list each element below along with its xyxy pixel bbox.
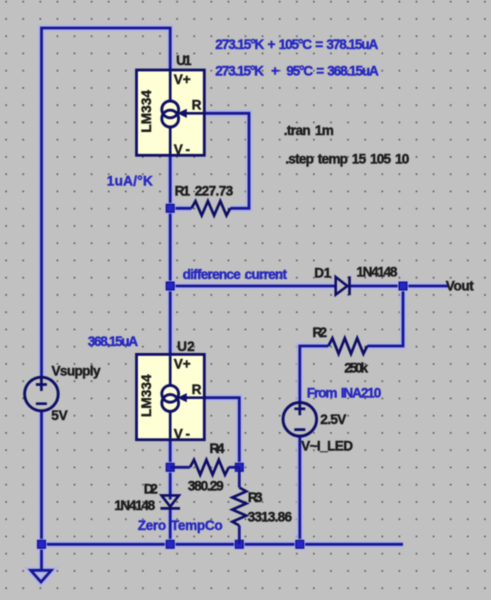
wire R4 left lead: [170, 466, 190, 469]
svg-text:V+: V+: [174, 356, 191, 371]
svg-text:273.15°K + 95°C = 368.15uA: 273.15°K + 95°C = 368.15uA: [215, 64, 379, 79]
svg-text:U2: U2: [177, 339, 195, 354]
svg-text:5V: 5V: [51, 408, 67, 423]
svg-text:R1: R1: [175, 184, 191, 199]
op-amp U1 LM334 body: [137, 70, 205, 155]
svg-text:V+: V+: [174, 72, 191, 87]
wire ground rail: [42, 541, 404, 548]
svg-text:D1: D1: [314, 266, 331, 281]
svg-text:Vout: Vout: [446, 279, 474, 294]
svg-text:V-: V-: [174, 427, 190, 442]
wire difference current (node to D1 anode): [170, 283, 336, 290]
svg-text:3313.86: 3313.86: [248, 510, 293, 525]
node junction R3 ground: [234, 539, 245, 550]
wire U1 V- to U2 V+: [167, 155, 174, 354]
wire D1 cathode to Vout: [350, 283, 449, 290]
svg-text:From INA210: From INA210: [307, 385, 382, 400]
svg-text:R: R: [192, 97, 202, 112]
wire U2 V- to D2 anode: [167, 440, 174, 500]
svg-text:1uA/°K: 1uA/°K: [107, 174, 153, 189]
svg-text:227.73: 227.73: [195, 184, 234, 199]
diode D2: [160, 495, 180, 508]
wire V+ rail: top and left from U1 V+ to ground corner: [42, 28, 171, 544]
wire R2 to V2 to ground rail: [300, 346, 329, 544]
svg-text:Vsupply: Vsupply: [52, 363, 101, 378]
op-amp U2 LM334 body: [137, 354, 205, 439]
svg-text:380.29: 380.29: [188, 479, 224, 494]
node junction V2 ground: [294, 539, 305, 550]
node junction R1 left: [165, 203, 176, 214]
svg-text:250k: 250k: [344, 361, 368, 376]
wire Vout node to R2: [367, 286, 403, 346]
node junction R4 left / D2: [165, 462, 176, 473]
node junction difference current tap: [165, 281, 176, 292]
wire R1 left lead to node: [170, 205, 191, 212]
svg-text:1N4148: 1N4148: [114, 498, 155, 513]
wire U2 R pin to R4 right node: [204, 398, 239, 468]
svg-text:273.15°K + 105°C = 378.15uA: 273.15°K + 105°C = 378.15uA: [215, 37, 378, 52]
wire R4 right lead: [229, 466, 240, 469]
node junction R4 right / R3: [234, 462, 245, 473]
resistor R3: [232, 467, 246, 544]
svg-text:368.15uA: 368.15uA: [88, 334, 138, 349]
svg-text:R3: R3: [248, 490, 263, 505]
voltage source Vsupply: [25, 377, 59, 411]
svg-text:.step temp 15 105 10: .step temp 15 105 10: [285, 152, 409, 167]
ground: [31, 544, 52, 582]
node junction D2 ground: [165, 539, 176, 550]
svg-text:2.5V: 2.5V: [320, 412, 346, 427]
wire D2 cathode to ground rail: [167, 508, 174, 544]
svg-text:D2: D2: [144, 482, 158, 497]
resistor R1: [192, 201, 231, 215]
svg-text:1N4148: 1N4148: [356, 265, 397, 280]
svg-text:.tran 1m: .tran 1m: [284, 123, 334, 138]
svg-text:V-: V-: [174, 142, 190, 157]
svg-text:R: R: [192, 382, 202, 397]
diode D1: [336, 276, 350, 295]
resistor R4: [190, 460, 229, 475]
svg-text:U1: U1: [176, 53, 192, 68]
voltage source V2 From INA210: [283, 403, 317, 437]
resistor R2: [328, 338, 367, 354]
node junction ground corner: [36, 539, 47, 550]
svg-text:Zero TempCo: Zero TempCo: [138, 518, 223, 533]
wire U1 R pin to R1: [204, 113, 249, 208]
svg-text:LM334: LM334: [139, 374, 154, 417]
svg-text:R2: R2: [313, 325, 328, 340]
svg-text:difference current: difference current: [183, 267, 288, 282]
svg-text:LM334: LM334: [139, 90, 154, 133]
node junction Vout / R2: [398, 281, 409, 292]
svg-text:R4: R4: [210, 441, 225, 456]
svg-text:V~I_LED: V~I_LED: [301, 439, 353, 454]
